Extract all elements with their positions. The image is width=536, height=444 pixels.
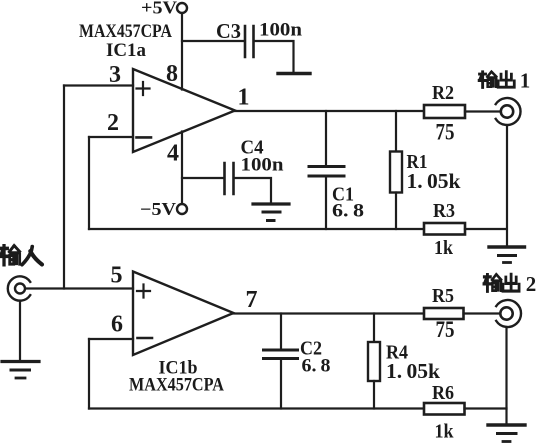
R4 value 1.05k: [386, 359, 440, 383]
connector output 2: [496, 300, 521, 327]
svg-text:IC1a: IC1a: [106, 40, 146, 61]
wire R6 to ground junction: [465, 407, 507, 409]
wire input shell to ground: [19, 301, 21, 362]
IC1b minus input symbol: [138, 337, 153, 340]
wire input riser: [63, 86, 65, 289]
svg-text:C3: C3: [216, 19, 241, 43]
wire C4 to ground: [235, 178, 272, 202]
C3 label: [216, 19, 241, 43]
C2 value 6.8: [302, 356, 331, 377]
IC1a name label: [106, 40, 146, 61]
wire output1 to ground: [506, 125, 508, 246]
wire R1 bottom lead: [395, 193, 397, 230]
pin 6 number: [111, 312, 123, 338]
output2 label: [484, 272, 536, 296]
R6 value 1k: [435, 421, 455, 443]
pin 4 number: [167, 141, 179, 167]
svg-text:5: 5: [111, 263, 123, 289]
wire feedback drop IC1b: [88, 339, 90, 409]
+5V label: [141, 0, 177, 18]
wire R2 to output1: [465, 110, 501, 112]
wire R4 top lead: [373, 314, 375, 343]
ground output2: [488, 425, 525, 442]
R2 value 75: [436, 120, 455, 145]
wire pin 4 stem: [181, 132, 183, 204]
pin 3 number: [109, 62, 121, 88]
svg-text:6: 6: [111, 312, 123, 338]
wire bottom rail: [89, 407, 424, 409]
C4 label: [241, 137, 264, 159]
C4 value 100n: [241, 155, 284, 176]
capacitor C3: [245, 26, 254, 57]
resistor R3: [424, 223, 465, 235]
IC1a part label MAX457CPA: [79, 21, 172, 42]
wire R3 to ground junction: [465, 228, 507, 230]
wire feedback rail 1: [89, 228, 424, 230]
svg-text:+5V: +5V: [141, 0, 177, 18]
capacitor C4: [225, 163, 234, 194]
C1 value 6.8: [332, 201, 364, 222]
R2 label: [432, 82, 454, 104]
connector output 1: [496, 98, 521, 125]
wire R1 top lead: [395, 111, 397, 152]
op-amp U IC1b: [133, 272, 234, 356]
ground input: [2, 362, 39, 379]
svg-text:2: 2: [107, 110, 119, 136]
capacitor C2: [264, 350, 298, 359]
R1 label: [407, 151, 428, 173]
R6 label: [432, 382, 454, 404]
capacitor C1: [309, 167, 344, 177]
resistor R1: [390, 152, 402, 193]
R3 label: [433, 200, 455, 222]
C3 value 100n: [259, 20, 302, 41]
svg-text:MAX457CPA: MAX457CPA: [79, 21, 172, 42]
resistor R5: [424, 308, 464, 319]
svg-text:1k: 1k: [434, 237, 454, 259]
wire feedback drop IC1a: [88, 137, 90, 229]
svg-text:R2: R2: [432, 82, 454, 104]
svg-text:100n: 100n: [259, 20, 302, 41]
svg-text:75: 75: [436, 317, 455, 342]
svg-text:6. 8: 6. 8: [302, 356, 331, 377]
svg-text:1k: 1k: [435, 421, 455, 443]
svg-text:MAX457CPA: MAX457CPA: [129, 375, 224, 396]
wire input to pin 5: [26, 287, 134, 289]
wire C2 drop: [280, 314, 282, 349]
svg-text:7: 7: [246, 287, 258, 313]
R5 value 75: [436, 317, 455, 342]
wire +5V stem to pin 8: [181, 14, 183, 90]
-5V terminal circle: [177, 204, 187, 214]
R1 value 1.05k: [407, 169, 461, 193]
ground output1: [489, 247, 525, 263]
svg-text:3: 3: [109, 62, 121, 88]
svg-text:1. 05k: 1. 05k: [407, 169, 461, 193]
IC1b name label: [159, 358, 198, 379]
svg-text:8: 8: [166, 61, 178, 87]
wire output2 to ground: [505, 327, 507, 424]
C2 label: [300, 338, 322, 360]
connector input: [8, 276, 30, 300]
input label: [0, 246, 42, 265]
svg-text:75: 75: [436, 120, 455, 145]
output1 label: [479, 69, 530, 93]
-5V label: [140, 199, 176, 219]
wire pin 3 input: [64, 84, 133, 86]
svg-text:−5V: −5V: [140, 199, 176, 219]
wire C1 to feedback rail: [325, 178, 327, 230]
svg-text:1: 1: [520, 69, 531, 93]
wire pin 6: [89, 338, 133, 340]
wire R4 bottom lead: [373, 381, 375, 409]
C1 label: [332, 184, 354, 206]
wire output rail 1: [235, 110, 424, 112]
resistor R6: [424, 403, 465, 415]
op-amp U IC1a: [133, 69, 235, 152]
wire output rail 2: [234, 312, 425, 314]
pin 5 number: [111, 263, 123, 289]
svg-text:2: 2: [526, 272, 536, 296]
wire C3 tap: [182, 40, 244, 42]
svg-text:R5: R5: [432, 285, 454, 307]
IC1b plus input symbol: [137, 285, 150, 298]
wire C1 drop: [325, 111, 327, 165]
pin 1 number: [238, 85, 250, 111]
resistor R4: [368, 342, 380, 381]
IC1a plus input symbol: [137, 82, 150, 95]
IC1b part label MAX457CPA: [129, 375, 224, 396]
+5V terminal circle: [177, 3, 187, 13]
resistor R2: [424, 105, 465, 118]
R3 value 1k: [434, 237, 454, 259]
R4 label: [386, 342, 408, 364]
wire C3 to ground: [255, 41, 294, 72]
ground C4: [253, 204, 289, 221]
svg-text:1: 1: [238, 85, 250, 111]
svg-text:R3: R3: [433, 200, 455, 222]
wire C2 to bottom rail: [280, 360, 282, 409]
IC1a minus input symbol: [137, 136, 152, 139]
wire C4 tap: [182, 177, 224, 179]
svg-text:6. 8: 6. 8: [332, 201, 364, 222]
pin 2 number: [107, 110, 119, 136]
svg-text:4: 4: [167, 141, 179, 167]
pin 7 number: [246, 287, 258, 313]
ground C3: [278, 72, 310, 75]
wire R5 to output2: [464, 312, 501, 314]
wire pin 2: [89, 136, 133, 138]
svg-text:100n: 100n: [241, 155, 284, 176]
svg-text:R6: R6: [432, 382, 454, 404]
pin 8 number: [166, 61, 178, 87]
R5 label: [432, 285, 454, 307]
svg-text:1. 05k: 1. 05k: [386, 359, 440, 383]
